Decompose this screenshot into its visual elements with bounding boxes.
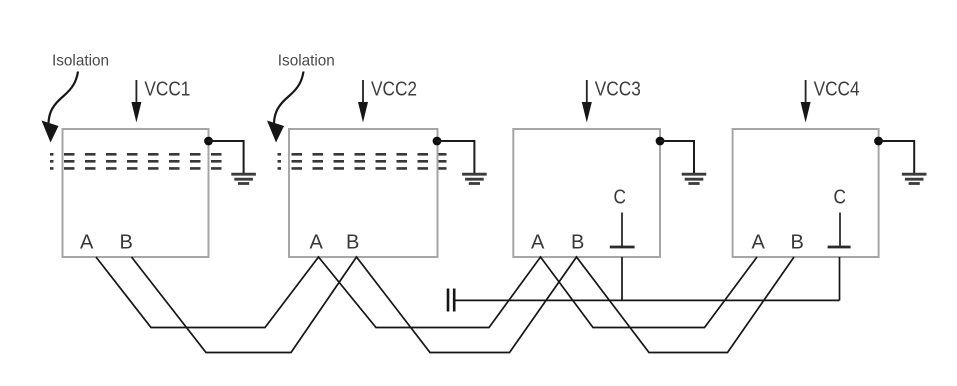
svg-text:B: B [120, 232, 133, 254]
wire dot1 to ground 1 [209, 141, 244, 173]
isolation barrier dashes U1 [50, 154, 225, 168]
VCC4 supply arrow [801, 80, 811, 123]
svg-text:B: B [571, 232, 584, 254]
ground GND1 [231, 174, 256, 183]
C terminal plate U4 [828, 246, 851, 249]
capacitor C1 right plate [453, 289, 456, 312]
VCC3 supply arrow [582, 80, 592, 123]
wire U3.C riser [621, 257, 623, 300]
svg-text:C: C [834, 187, 847, 209]
C terminal stub U3 [621, 213, 623, 248]
capacitor C1 left plate [447, 289, 450, 312]
svg-text:A: A [531, 232, 545, 254]
junction dot U3 ground [656, 137, 665, 146]
isolation pointer arrow (U1) [42, 72, 79, 143]
svg-text:B: B [346, 232, 359, 254]
wire net B bus (U1.B - U2.B - U3.B - U4.B) [132, 257, 795, 353]
wire net A bus (U1.A - U2.A - U3.A - U4.A) [96, 257, 757, 328]
C terminal stub U4 [839, 213, 841, 248]
svg-text:A: A [80, 232, 94, 254]
svg-text:Isolation: Isolation [52, 53, 109, 70]
wire net C rail [454, 299, 839, 301]
wire dot2 to ground 2 [437, 141, 474, 173]
wire dot3 to ground 3 [660, 141, 694, 173]
isolation pointer arrow (U2) [267, 72, 304, 143]
ground GND2 [462, 174, 487, 183]
svg-text:C: C [614, 187, 627, 209]
junction dot U4 ground [874, 137, 883, 146]
box U1 [63, 129, 209, 257]
isolation barrier dashes U2 [278, 154, 447, 168]
C terminal plate U3 [610, 246, 635, 249]
ground GND3 [682, 174, 707, 183]
box U2 [289, 129, 438, 257]
wire U4.C riser [839, 257, 841, 300]
VCC2 supply arrow [358, 80, 368, 123]
svg-text:VCC3: VCC3 [595, 79, 641, 101]
svg-text:VCC4: VCC4 [814, 79, 860, 101]
wire dot4 to ground 4 [879, 141, 915, 173]
svg-text:A: A [752, 232, 766, 254]
svg-text:VCC1: VCC1 [144, 79, 190, 101]
svg-text:B: B [791, 232, 804, 254]
svg-text:A: A [310, 232, 324, 254]
svg-text:Isolation: Isolation [278, 53, 335, 70]
VCC1 supply arrow [131, 80, 141, 123]
junction dot U1 ground [204, 137, 213, 146]
ground GND4 [902, 174, 927, 183]
svg-text:VCC2: VCC2 [371, 79, 417, 101]
box U3 [513, 129, 660, 257]
junction dot U2 ground [433, 137, 442, 146]
box U4 [733, 129, 879, 257]
